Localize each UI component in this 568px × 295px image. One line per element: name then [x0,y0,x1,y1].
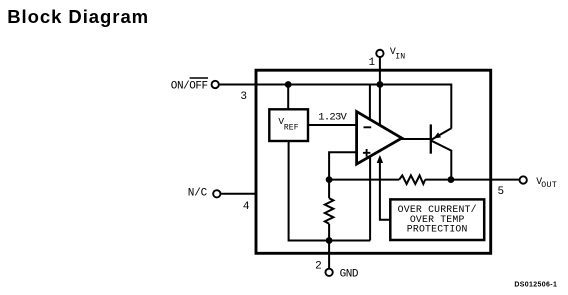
svg-text:DS012506-1: DS012506-1 [514,282,557,289]
svg-text:2: 2 [315,260,322,272]
IC boundary box [256,70,491,253]
svg-text:GND: GND [340,269,359,281]
pin 4 NC terminal circle [213,190,220,197]
svg-text:5: 5 [497,186,504,198]
node dot Vout/collector [448,176,455,183]
svg-text:3: 3 [240,91,247,103]
wire collector to Vout rail [450,150,452,180]
resistor R2 vertical zigzag [325,198,334,224]
transistor Q1 collector diagonal [431,141,451,151]
resistor R1 horizontal zigzag [399,175,425,184]
svg-text:Block Diagram: Block Diagram [7,6,149,27]
svg-text:PROTECTION: PROTECTION [407,224,468,235]
wire Vref bottom lead and ground rail [289,142,371,241]
wire ON/OFF rail y=84.5 [220,84,452,86]
svg-text:OUT: OUT [541,181,557,190]
svg-text:1.23V: 1.23V [318,111,347,123]
wire emitter feed vertical x=451.3 [450,84,452,129]
op-amp inverting input minus sign [364,126,372,128]
op-amp non-inverting input plus sign [363,149,371,157]
pin 1 VIN terminal circle [376,50,383,57]
wire ground rail to GND pin [328,241,330,269]
wire N/C pin lead [221,193,256,195]
wire Vout rail left segment [329,179,399,181]
svg-text:REF: REF [284,124,299,133]
wire base of Q1 from op-amp output [402,138,431,140]
node dot Vref/ON-OFF rail [285,81,292,88]
node dot feedback [326,176,333,183]
pin 2 GND terminal circle [325,269,332,276]
wire Vref top lead x=288.2 [287,85,289,110]
svg-text:IN: IN [395,53,405,62]
arrowhead protection into op-amp [377,155,383,163]
svg-text:N/C: N/C [188,187,208,199]
svg-text:4: 4 [243,201,250,213]
Vref block box [269,109,308,141]
wire feedback node down to resistor R2 [328,180,330,199]
wire op-amp down to ground rail x=370.1 [369,150,371,241]
transistor Q1 emitter diagonal [431,128,451,140]
transistor Q1 emitter arrowhead (PNP) [433,132,441,138]
wire 1.23V reference to inverting input [309,124,358,126]
wire feedback to non-inverting input [329,152,358,179]
protection block box [390,199,484,240]
node dot ground rail [326,237,333,244]
wire resistor R2 to ground rail [328,224,330,241]
pin 5 VOUT terminal circle [520,176,527,183]
op-amp U1 error amplifier triangle [357,112,402,165]
transistor Q1 base bar [430,124,432,153]
pin 3 ON/OFF terminal circle [212,81,219,88]
wire Vin pin lead down through rail into op-amp [379,57,381,130]
node dot Vin rail [377,81,384,88]
wire protection block to op-amp with arrow [380,161,391,220]
svg-text:ON/OFF: ON/OFF [171,81,208,93]
svg-text:1: 1 [368,57,375,69]
wire enable into op-amp x=369.9 [369,85,371,126]
wire Vout rail right segment to pin 5 [425,179,519,181]
